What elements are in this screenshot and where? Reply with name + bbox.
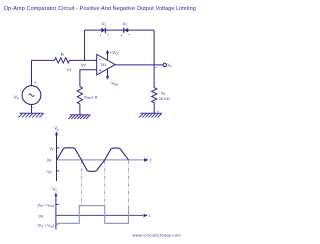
svg-text:D1: D1 bbox=[102, 21, 107, 27]
svg-text:- VP: - VP bbox=[45, 169, 52, 175]
svg-text:+: + bbox=[34, 81, 37, 86]
dash-dot drop line at second crossing bbox=[104, 161, 106, 206]
svg-text:+VCC: +VCC bbox=[110, 50, 120, 56]
wire top branch bbox=[85, 29, 155, 31]
svg-text:741: 741 bbox=[100, 63, 106, 67]
svg-text:www.CircuitsToday.com: www.CircuitsToday.com bbox=[133, 233, 182, 238]
svg-text:10 KΩ: 10 KΩ bbox=[159, 96, 170, 101]
wire source to ground bbox=[31, 105, 33, 113]
0V axis line upper bbox=[57, 159, 144, 161]
op-amp U1 741 bbox=[97, 54, 116, 75]
resistor RL bbox=[152, 88, 157, 103]
svg-text:(VZ + VD1): (VZ + VD1) bbox=[38, 203, 55, 208]
svg-text:V1: V1 bbox=[67, 67, 73, 72]
svg-text:Vin: Vin bbox=[54, 126, 59, 132]
svg-text:Vo: Vo bbox=[52, 187, 57, 193]
tick low level bbox=[56, 223, 59, 225]
svg-text:VP: VP bbox=[49, 146, 54, 152]
wire non-inverting input bbox=[80, 70, 97, 87]
wire RL to ground bbox=[153, 103, 155, 113]
wire vertical junction to top branch bbox=[84, 30, 86, 60]
tick high level bbox=[56, 203, 59, 205]
ground under Rcom bbox=[69, 115, 91, 119]
svg-text:- (VZ + VD2): - (VZ + VD2) bbox=[35, 224, 54, 229]
wire Vin top to R bbox=[32, 59, 55, 61]
wire Rcom to ground bbox=[79, 104, 81, 115]
diode D2 bbox=[120, 21, 131, 38]
+Vcc supply arrow bbox=[107, 52, 109, 59]
ground under RL bbox=[139, 113, 162, 117]
axis Vin (upper waveform) bbox=[56, 134, 58, 181]
svg-text:D2: D2 bbox=[123, 21, 128, 27]
svg-text:V2: V2 bbox=[81, 63, 87, 68]
svg-text:−: − bbox=[107, 32, 110, 37]
terminal Vo bbox=[163, 63, 166, 66]
svg-text:Op-Amp Comparator Circuit - Po: Op-Amp Comparator Circuit - Positive And… bbox=[4, 6, 196, 12]
ground under Vin bbox=[19, 113, 44, 117]
square wave Vo bbox=[56, 206, 129, 224]
source Vin bbox=[22, 86, 41, 105]
wire Vin source to input bbox=[31, 60, 33, 85]
dash-dot drop line at third crossing bbox=[128, 161, 130, 205]
svg-text:ROM= R: ROM= R bbox=[84, 95, 98, 100]
svg-text:-VEE: -VEE bbox=[110, 81, 118, 87]
svg-text:−: − bbox=[155, 66, 158, 72]
0V axis line lower bbox=[56, 214, 143, 216]
tick -Vp bbox=[57, 170, 60, 172]
-Vee supply arrow bbox=[107, 69, 109, 76]
dash-dot drop line at first crossing bbox=[80, 161, 82, 206]
svg-text:0V: 0V bbox=[39, 214, 44, 219]
sine wave Vin bbox=[57, 148, 129, 172]
svg-text:Vin: Vin bbox=[14, 94, 19, 100]
resistor R bbox=[55, 58, 70, 63]
tick Vp bbox=[57, 147, 60, 149]
wire op-amp output to terminal bbox=[115, 64, 163, 66]
svg-text:0V: 0V bbox=[47, 158, 52, 163]
svg-text:−: − bbox=[128, 32, 131, 37]
resistor Rcom bbox=[77, 87, 82, 104]
diode D1 bbox=[100, 21, 110, 38]
axis Vo (lower waveform) bbox=[55, 195, 57, 230]
svg-text:+: + bbox=[99, 68, 102, 74]
wire R to op-amp inverting input bbox=[70, 59, 97, 61]
svg-text:−: − bbox=[32, 106, 35, 111]
svg-text:R: R bbox=[61, 52, 64, 57]
svg-text:Vo: Vo bbox=[167, 63, 172, 69]
wire right vertical from top branch through output down to RL bbox=[153, 30, 155, 88]
